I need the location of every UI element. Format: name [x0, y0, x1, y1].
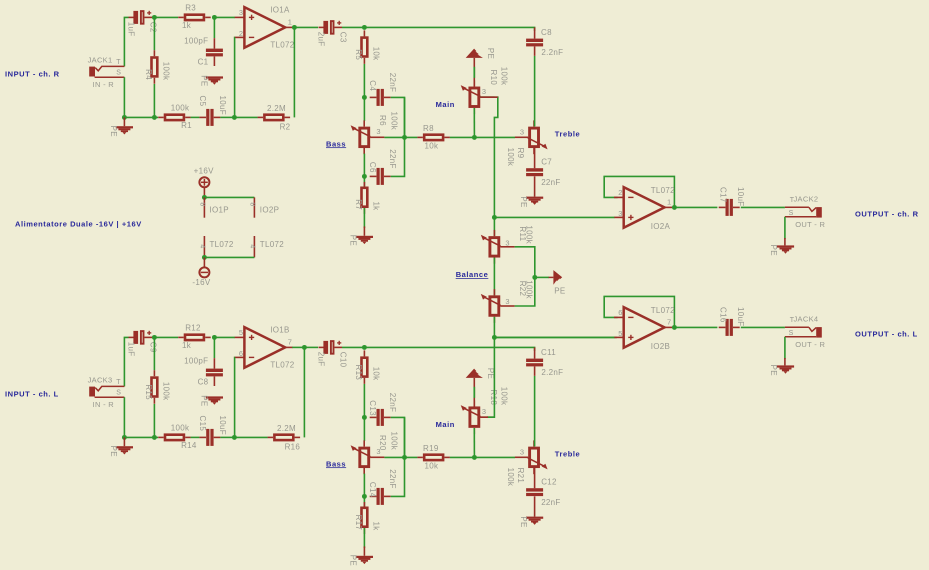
wire V+ rail to IO2P: [204, 196, 254, 198]
wire top rail C9 to R12: [152, 336, 178, 338]
capacitor C9 1uF: [126, 331, 157, 357]
junction IO1B output: [302, 345, 307, 350]
svg-text:1uF: 1uF: [126, 22, 135, 37]
svg-text:R1: R1: [181, 121, 192, 130]
ground PE at C8: [200, 395, 223, 406]
ground stem R7: [363, 226, 365, 235]
wire top rail C2 to R3: [152, 16, 178, 18]
svg-text:100k: 100k: [500, 387, 509, 406]
svg-text:-16V: -16V: [192, 278, 210, 287]
junction IO2B output: [672, 325, 677, 330]
junction bass wiper node: [402, 455, 407, 460]
junction jack JACK3 ground node: [122, 435, 127, 440]
wire IO1B inverting input: [234, 357, 236, 437]
wire R15 bottom: [153, 404, 155, 437]
wire input to IO2A: [494, 216, 614, 218]
potentiometer R11 Balance 100k: [481, 225, 534, 263]
svg-text:3: 3: [482, 407, 486, 416]
capacitor C2 1uF: [126, 11, 157, 37]
svg-text:3: 3: [239, 8, 243, 17]
svg-text:5: 5: [618, 329, 622, 338]
wire to op-amp + input: [214, 336, 235, 338]
svg-text:2uF: 2uF: [316, 352, 325, 367]
wire -16V pin: [203, 257, 205, 267]
wire R22 wiper up to PE node: [515, 277, 535, 306]
resistor R13 10k: [354, 350, 381, 384]
wire C10 to rail: [342, 346, 364, 348]
junction feedback node: [232, 115, 237, 120]
svg-text:1k: 1k: [371, 201, 380, 211]
svg-text:PE: PE: [200, 75, 209, 86]
svg-text:Bass: Bass: [326, 459, 346, 468]
wire C5 to node: [220, 116, 234, 118]
svg-text:C17: C17: [718, 187, 727, 203]
svg-text:3: 3: [505, 238, 509, 247]
wire +16V pin: [203, 188, 205, 198]
wire node to bass pot: [363, 417, 365, 441]
svg-text:IO1B: IO1B: [270, 326, 289, 335]
svg-text:1k: 1k: [182, 341, 192, 350]
resistor R14 100k: [158, 424, 197, 450]
wire V- rail to IO2P: [204, 256, 254, 258]
wire bass wiper to R8: [384, 136, 417, 138]
svg-text:C8: C8: [198, 378, 209, 387]
svg-text:100pF: 100pF: [184, 356, 208, 365]
junction C4 node: [362, 95, 367, 100]
svg-text:1k: 1k: [182, 21, 192, 30]
junction IO2A output: [672, 205, 677, 210]
svg-text:C1: C1: [198, 58, 209, 67]
svg-text:C11: C11: [541, 348, 556, 357]
junction balance PE node: [532, 275, 537, 280]
svg-text:1k: 1k: [371, 522, 380, 532]
junction jack JACK1 ground node: [122, 115, 127, 120]
wire IO2B output to C16: [674, 326, 717, 328]
ground stem JACK4: [784, 358, 786, 365]
wire main wiper to balance node: [480, 97, 498, 217]
svg-text:1: 1: [667, 198, 671, 207]
resistor R17 1k: [354, 502, 381, 534]
svg-text:JACK3: JACK3: [88, 376, 113, 385]
supply PE arrow above Main pot: [466, 48, 495, 59]
svg-text:4: 4: [249, 244, 256, 248]
op-amp IO2B TL072: [614, 306, 675, 351]
connector JACK4: [785, 315, 826, 349]
wire node to bass pot: [363, 97, 365, 121]
wire node to R17: [363, 496, 365, 507]
svg-text:JACK1: JACK1: [88, 56, 113, 65]
svg-text:C6: C6: [368, 162, 377, 173]
svg-text:PE: PE: [200, 395, 209, 406]
potentiometer R20 Bass 100k: [351, 432, 399, 475]
wire R8 to main node: [450, 136, 475, 138]
wire C14 to bypass: [391, 417, 405, 496]
junction main pot node: [472, 455, 477, 460]
wire R4 top: [153, 17, 155, 50]
capacitor C14 22nF: [368, 469, 397, 505]
junction -16V node: [202, 255, 207, 260]
svg-text:R8: R8: [423, 124, 434, 133]
svg-text:R3: R3: [185, 4, 196, 13]
svg-text:100pF: 100pF: [184, 36, 208, 45]
wire PE green segment: [473, 387, 475, 398]
svg-text:S: S: [116, 390, 121, 397]
svg-text:R10: R10: [489, 70, 498, 86]
op-amp IO2A TL072: [614, 186, 675, 231]
wire input to IO2B: [494, 336, 614, 338]
resistor R1 100k: [158, 104, 192, 130]
capacitor C7 22nF: [526, 158, 561, 188]
capacitor C10 2uF: [316, 341, 347, 368]
svg-text:3: 3: [520, 128, 524, 137]
capacitor C12 22nF: [526, 478, 561, 508]
supply PE arrow at balance: [553, 270, 565, 296]
wire node to R16: [234, 436, 267, 438]
capacitor C6 22nF: [368, 149, 397, 185]
svg-text:1uF: 1uF: [126, 342, 135, 357]
svg-text:T: T: [116, 59, 121, 66]
ground PE at JACK3: [109, 446, 133, 457]
connector JACK2: [785, 195, 826, 229]
capacitor C15 10uF: [198, 416, 227, 446]
svg-text:R21: R21: [516, 468, 525, 484]
potentiometer R22 Balance 100k: [481, 280, 534, 323]
svg-text:100k: 100k: [506, 468, 515, 487]
junction IO1A output: [292, 25, 297, 30]
svg-text:7: 7: [667, 318, 671, 327]
resistor R12 1k: [178, 324, 211, 350]
junction bass wiper node: [402, 135, 407, 140]
svg-text:10k: 10k: [425, 462, 439, 471]
capacitor C11 2.2nF: [526, 347, 563, 377]
svg-text:R18: R18: [489, 390, 498, 406]
wire C12 to ground: [534, 496, 536, 516]
svg-text:PE: PE: [554, 287, 565, 296]
wire C6 to bypass: [391, 97, 405, 176]
wire PE arrow lead: [549, 276, 554, 278]
wire main L wiper maroon lead: [480, 416, 488, 418]
capacitor C17 10uF: [718, 187, 745, 216]
svg-text:2.2nF: 2.2nF: [541, 368, 563, 377]
power pin IO2P V-: [253, 236, 255, 257]
svg-text:6: 6: [618, 308, 622, 317]
svg-text:4: 4: [199, 244, 206, 248]
wire treble top to C11: [534, 376, 536, 446]
wire between balance pots: [493, 258, 495, 296]
wire C4 to bypass: [391, 97, 405, 137]
ground stem JACK2: [784, 238, 786, 245]
wire treble bottom to C7: [534, 148, 536, 168]
svg-text:2.2M: 2.2M: [277, 424, 296, 433]
supply -16V symbol: [199, 267, 209, 277]
junction R4/R1 node: [152, 115, 157, 120]
potentiometer R21 Treble 100k: [506, 440, 547, 486]
wire ground rail to R1: [124, 116, 158, 118]
svg-text:10uF: 10uF: [218, 416, 227, 435]
wire bass wiper to R19: [384, 456, 417, 458]
op-amp IO1B TL072: [235, 326, 295, 370]
svg-text:TL072: TL072: [270, 40, 294, 49]
potentiometer R10 Main 100k: [461, 67, 509, 114]
resistor R7 1k: [354, 182, 381, 214]
svg-text:S: S: [116, 70, 121, 77]
svg-text:C4: C4: [368, 80, 377, 91]
svg-text:C15: C15: [198, 416, 207, 432]
wire R19 to main node: [450, 456, 475, 458]
svg-text:3: 3: [505, 297, 509, 306]
svg-text:100k: 100k: [500, 67, 509, 86]
wire node B down to Main L wiper: [487, 337, 494, 417]
svg-text:PE: PE: [349, 555, 358, 566]
svg-text:IN - R: IN - R: [93, 400, 115, 409]
svg-text:R14: R14: [181, 441, 197, 450]
supply +16V symbol: [199, 177, 209, 187]
resistor R16 2.2M: [268, 424, 301, 451]
capacitor C13 22nF: [368, 393, 397, 426]
svg-text:C12: C12: [541, 478, 557, 487]
junction C14 node: [362, 494, 367, 499]
svg-text:3: 3: [482, 87, 486, 96]
svg-text:Main: Main: [436, 100, 455, 109]
ground PE at R7: [349, 235, 373, 246]
wire R22 bottom to node B: [493, 317, 495, 338]
power pin IO1P V-: [203, 236, 205, 257]
wire R5 to bass node: [363, 64, 365, 97]
svg-text:22nF: 22nF: [541, 178, 560, 187]
wire R13 to bass node: [363, 384, 365, 417]
svg-text:TL072: TL072: [651, 186, 675, 195]
svg-text:R20: R20: [378, 435, 387, 451]
junction node C2/R4: [152, 15, 157, 20]
svg-text:1: 1: [288, 18, 292, 27]
svg-text:8: 8: [249, 202, 256, 206]
wire output to C3: [294, 26, 318, 28]
ground PE at JACK4: [769, 365, 794, 376]
connector JACK1: [88, 56, 125, 90]
capacitor C8 100pF: [184, 356, 223, 386]
svg-text:22nF: 22nF: [541, 498, 560, 507]
svg-text:TL072: TL072: [270, 360, 294, 369]
junction C13 node: [362, 415, 367, 420]
svg-text:6: 6: [239, 349, 243, 358]
junction balance node B: [492, 335, 497, 340]
wire jack JACK1 sleeve to ground: [123, 77, 125, 117]
svg-text:Main: Main: [436, 420, 455, 429]
junction rail/R5: [362, 25, 367, 30]
svg-text:22nF: 22nF: [388, 469, 397, 488]
junction main pot node: [472, 135, 477, 140]
svg-text:TL072: TL072: [260, 240, 284, 249]
wire to op-amp + input: [214, 16, 235, 18]
ground PE at C7: [519, 196, 543, 207]
svg-text:+16V: +16V: [194, 166, 214, 175]
wire R1 to C5: [191, 116, 200, 118]
wire node to R2: [234, 116, 257, 118]
svg-text:Treble: Treble: [555, 130, 580, 139]
svg-text:OUTPUT - ch. R: OUTPUT - ch. R: [855, 209, 919, 218]
svg-text:IO2B: IO2B: [651, 342, 670, 351]
svg-text:10uF: 10uF: [736, 187, 745, 206]
svg-text:C16: C16: [718, 307, 727, 323]
svg-text:PE: PE: [769, 365, 778, 376]
svg-text:2: 2: [618, 188, 622, 197]
svg-text:3: 3: [376, 127, 380, 136]
svg-text:Treble: Treble: [555, 450, 580, 459]
wire PE green segment: [473, 67, 475, 78]
svg-text:10k: 10k: [371, 367, 380, 381]
resistor R19 10k: [417, 444, 450, 471]
wire R17 to ground: [363, 528, 365, 548]
svg-text:OUTPUT - ch. L: OUTPUT - ch. L: [855, 329, 918, 338]
resistor R2 2.2M: [258, 104, 291, 131]
svg-text:Balance: Balance: [456, 270, 489, 279]
wire balance node to pot R11: [493, 217, 495, 236]
capacitor C1 100pF: [184, 36, 223, 66]
wire ground stem JACK1: [123, 117, 125, 126]
junction node C9/R15: [152, 335, 157, 340]
svg-text:2: 2: [239, 29, 243, 38]
connector JACK3: [88, 376, 125, 410]
junction +16V node: [202, 195, 207, 200]
svg-text:PE: PE: [486, 48, 495, 59]
wire C7 to ground: [534, 176, 536, 196]
svg-text:R7: R7: [354, 199, 363, 210]
wire IO1A inverting input: [234, 37, 236, 117]
wire R11 wiper to PE node: [515, 247, 535, 278]
svg-text:10uF: 10uF: [736, 307, 745, 326]
svg-text:C9: C9: [148, 342, 157, 353]
svg-text:C13: C13: [368, 400, 377, 416]
svg-text:TL072: TL072: [651, 306, 675, 315]
wire JACK2 sleeve to ground: [784, 217, 786, 239]
op-amp IO1A TL072: [235, 6, 295, 50]
wire jack JACK1 tip to C2: [124, 17, 128, 66]
svg-text:3: 3: [618, 209, 622, 218]
svg-text:S: S: [789, 210, 794, 217]
svg-text:R6: R6: [378, 115, 387, 126]
svg-text:IO2A: IO2A: [651, 222, 671, 231]
svg-text:PE: PE: [109, 126, 118, 137]
wire C13 to bypass: [391, 417, 405, 457]
junction balance node A: [492, 215, 497, 220]
wire ground stem JACK3: [123, 437, 125, 446]
wire node B to IO2B input: [494, 336, 616, 338]
potentiometer R18 Main 100k: [461, 387, 509, 434]
svg-text:Bass: Bass: [326, 139, 346, 148]
wire C17 to JACK2: [741, 206, 785, 208]
svg-text:C5: C5: [198, 96, 207, 107]
wire op-amp output to junction: [292, 26, 294, 28]
wire R4 bottom: [153, 84, 155, 117]
svg-text:C3: C3: [338, 32, 347, 43]
wire main wiper maroon lead: [480, 96, 498, 98]
svg-text:R5: R5: [354, 49, 363, 60]
junction node R3/C1: [212, 15, 217, 20]
junction rail/R13: [362, 345, 367, 350]
wire treble bottom to C12: [534, 468, 536, 488]
svg-text:R4: R4: [144, 69, 153, 80]
svg-text:IO1P: IO1P: [210, 206, 229, 215]
svg-text:100k: 100k: [161, 62, 170, 81]
svg-text:R13: R13: [354, 365, 363, 381]
wire C3 to rail: [342, 26, 364, 28]
svg-text:S: S: [789, 330, 794, 337]
ground PE at C1: [200, 75, 223, 86]
wire node to treble wiper: [474, 136, 515, 138]
svg-text:R15: R15: [144, 384, 153, 400]
wire bass pot bottom: [363, 474, 365, 497]
svg-text:JACK4: JACK4: [794, 315, 819, 324]
resistor R15 100k: [144, 370, 171, 404]
wire IO2A feedback loop: [604, 176, 674, 207]
svg-text:10uF: 10uF: [218, 96, 227, 115]
resistor R8 10k: [417, 124, 450, 151]
wire C15 to node: [220, 436, 234, 438]
capacitor C8 2.2nF: [526, 27, 563, 57]
supply PE arrow above Main pot: [466, 368, 495, 379]
junction C6 node: [362, 174, 367, 179]
svg-text:R16: R16: [285, 442, 301, 451]
svg-text:7: 7: [288, 338, 292, 347]
svg-text:C10: C10: [338, 352, 347, 368]
svg-text:2.2M: 2.2M: [267, 104, 286, 113]
svg-text:PE: PE: [519, 516, 528, 527]
wire IO2B feedback loop: [604, 296, 674, 327]
svg-text:C7: C7: [541, 158, 552, 167]
svg-text:10k: 10k: [371, 47, 380, 61]
wire jack JACK3 sleeve to ground: [123, 397, 125, 437]
svg-text:8: 8: [199, 202, 206, 206]
svg-text:C8: C8: [541, 28, 552, 37]
svg-text:PE: PE: [109, 446, 118, 457]
svg-text:IO2P: IO2P: [260, 206, 279, 215]
wire R15 top: [153, 337, 155, 370]
svg-text:OUT - R: OUT - R: [795, 340, 825, 349]
wire PE to main pot: [473, 58, 475, 87]
svg-text:Alimentatore Duale -16V | +16V: Alimentatore Duale -16V | +16V: [15, 220, 142, 229]
svg-text:R19: R19: [423, 444, 439, 453]
svg-text:C14: C14: [368, 482, 377, 498]
wire jack JACK3 tip to C9: [124, 337, 128, 386]
capacitor C4 22nF: [368, 73, 397, 106]
wire PE to main pot: [473, 378, 475, 407]
svg-text:2uF: 2uF: [316, 32, 325, 47]
svg-text:100k: 100k: [171, 424, 190, 433]
power pin IO1P V+: [203, 197, 205, 217]
capacitor C3 2uF: [316, 21, 347, 47]
wire main pot bottom: [473, 428, 475, 457]
wire node to R7: [363, 176, 365, 187]
capacitor C5 10uF: [198, 96, 227, 126]
wire top rail to treble cap: [364, 27, 534, 31]
power pin IO2P V+: [253, 197, 255, 217]
svg-text:R17: R17: [354, 515, 363, 531]
wire main pot bottom: [473, 108, 475, 137]
svg-text:100k: 100k: [390, 432, 399, 451]
svg-text:22nF: 22nF: [388, 149, 397, 168]
svg-text:INPUT - ch. R: INPUT - ch. R: [5, 70, 60, 79]
potentiometer R6 Bass 100k: [351, 112, 399, 155]
wire op-amp output to junction: [292, 346, 304, 348]
svg-text:2.2nF: 2.2nF: [541, 48, 563, 57]
svg-text:JACK2: JACK2: [794, 195, 819, 204]
capacitor C16 10uF: [718, 307, 745, 336]
svg-text:R9: R9: [516, 148, 525, 159]
wire ground rail to R14: [124, 436, 158, 438]
wire node to treble wiper: [474, 456, 515, 458]
resistor R4 100k: [144, 50, 171, 84]
wire IO2A output to C17: [674, 206, 717, 208]
